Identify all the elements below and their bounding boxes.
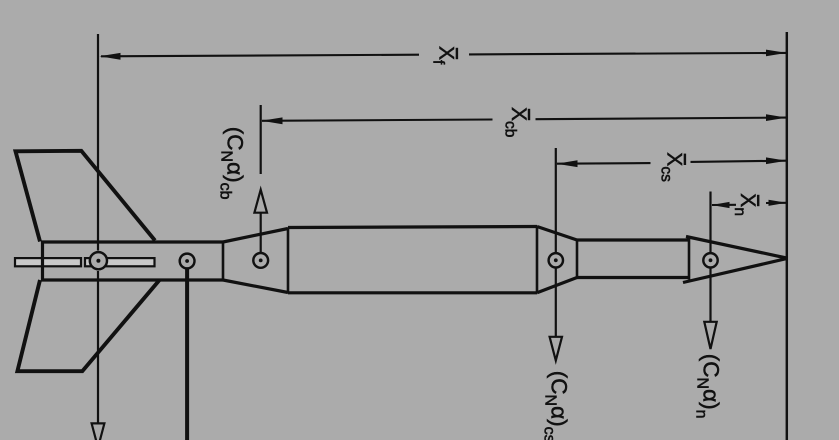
label Xn: [731, 193, 759, 216]
label Xcs: [657, 152, 685, 182]
CP marker total (thick trace down): [185, 268, 189, 440]
lower fin: [17, 280, 159, 371]
CP marker total circle: [180, 254, 195, 269]
dimension line Xcb: [262, 114, 787, 124]
svg-text:Xcb: Xcb: [502, 107, 530, 137]
dimension line Xcs: [557, 157, 787, 167]
side fin seen edge-on: [15, 258, 155, 266]
CP marker conical boattail: [253, 253, 268, 268]
CP marker fins: [90, 252, 107, 269]
CP marker nose: [703, 253, 717, 267]
upper fin: [16, 151, 156, 242]
svg-text:(CNα)cs: (CNα)cs: [541, 371, 572, 440]
svg-text:(CNα)n: (CNα)n: [693, 354, 724, 419]
dimension line Xn: [712, 200, 787, 208]
dimension line Xf: [100, 50, 787, 60]
rocket body outline: [41, 227, 787, 294]
label Xf: [429, 46, 457, 65]
svg-text:Xcs: Xcs: [657, 152, 685, 182]
svg-text:(CNα)cb: (CNα)cb: [217, 127, 248, 200]
svg-text:Xf: Xf: [429, 46, 457, 65]
reference line nose tip datum: [786, 32, 788, 440]
label Xcb: [502, 107, 530, 137]
reference line Xcb datum and force arrow (CNa)cb: [254, 105, 267, 252]
reference line Xn datum and force arrow (CNa)n: [704, 192, 716, 350]
CP marker conical shoulder: [549, 253, 563, 267]
reference line Xcs datum and force arrow (CNa)cs: [550, 148, 562, 361]
reference line fins (Xf datum): [92, 34, 105, 440]
